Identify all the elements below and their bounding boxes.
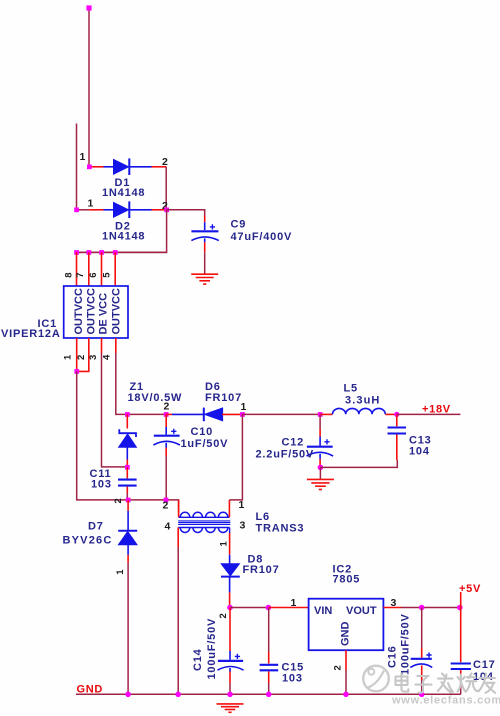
transformer L6 secondary — [165, 511, 305, 695]
char fa — [438, 674, 453, 693]
svg-text:OUTVCC: OUTVCC — [111, 288, 123, 335]
pin number 1 IC2 — [291, 597, 297, 609]
IC IC1 VIPER12A — [1, 286, 128, 340]
svg-text:C9: C9 — [231, 219, 247, 231]
node GND L6 pin4 — [175, 692, 181, 698]
node GND C14 — [227, 692, 233, 698]
svg-text:3: 3 — [88, 355, 99, 360]
svg-text:8: 8 — [64, 272, 75, 277]
svg-text:2: 2 — [76, 355, 87, 360]
diode D6 — [164, 381, 247, 421]
svg-text:TRANS3: TRANS3 — [256, 523, 305, 535]
wire D6 to C12 node — [242, 413, 320, 415]
pin number 5 — [102, 272, 113, 278]
svg-text:C10: C10 — [191, 426, 214, 438]
IC IC2 7805 — [309, 564, 384, 651]
wire pin8 stub — [76, 252, 78, 286]
capacitor C11 — [90, 467, 137, 500]
pin number 1 — [63, 354, 74, 360]
char you — [479, 674, 495, 693]
wire IC2 pin2 down — [345, 650, 347, 694]
node D7 top on y500 line — [126, 498, 131, 503]
pin number 2 D8 rotated — [218, 613, 229, 618]
wire pin4 stub — [115, 338, 117, 353]
capacitor C16 — [387, 608, 433, 695]
svg-text:L6: L6 — [256, 511, 270, 523]
svg-text:2: 2 — [333, 665, 344, 670]
net label GND — [77, 684, 104, 696]
node C12 top — [318, 412, 323, 417]
svg-text:VOUT: VOUT — [346, 605, 377, 617]
watermark url — [391, 695, 500, 707]
svg-text:100uF/50V: 100uF/50V — [206, 618, 218, 680]
svg-text:2: 2 — [164, 401, 170, 413]
node bus pin5 — [113, 250, 118, 255]
svg-text:D7: D7 — [88, 521, 104, 533]
char zi — [416, 676, 432, 693]
svg-text:GND: GND — [77, 684, 104, 696]
pin number 2 D7 rotated — [113, 498, 124, 503]
svg-text:1N4148: 1N4148 — [102, 231, 145, 243]
svg-text:GND: GND — [340, 622, 352, 647]
svg-text:OUTVCC: OUTVCC — [85, 288, 97, 335]
inductor L5 — [333, 383, 386, 415]
svg-text:1uF/50V: 1uF/50V — [181, 438, 229, 450]
svg-text:103: 103 — [282, 673, 303, 685]
node GND C15 — [266, 692, 272, 698]
svg-text:3: 3 — [391, 597, 397, 609]
svg-text:4: 4 — [102, 354, 113, 360]
wire pins1-2 down to y500 — [77, 371, 179, 512]
svg-text:2: 2 — [218, 613, 229, 618]
wire pin7 stub — [88, 252, 90, 286]
pin number 8 — [64, 272, 75, 277]
wire GND bus — [76, 693, 461, 695]
svg-text:C14: C14 — [192, 648, 204, 671]
wire pin5 stub — [114, 252, 116, 286]
node C13 top — [394, 412, 399, 417]
svg-text:1: 1 — [239, 499, 245, 511]
pin number 6 — [88, 272, 99, 277]
svg-text:6: 6 — [88, 272, 99, 277]
node Z1 bottom C11 top — [125, 465, 130, 470]
svg-text:3.3uH: 3.3uH — [345, 395, 380, 407]
svg-text:L5: L5 — [344, 383, 358, 395]
node D6 cathode — [240, 412, 245, 417]
node C16 top — [419, 605, 425, 611]
ground under C12 — [307, 479, 334, 489]
wire to +18V — [397, 413, 461, 415]
wire IC1 top bus — [77, 251, 167, 253]
node D1 anode — [87, 165, 92, 170]
svg-text:100uF/50V: 100uF/50V — [400, 613, 412, 675]
svg-text:1: 1 — [219, 541, 230, 547]
watermark logo circle — [363, 666, 389, 692]
capacitor C14 — [192, 608, 244, 695]
node GND D7 — [125, 692, 131, 698]
diode D2 — [77, 197, 169, 242]
wire pin6 stub — [101, 252, 103, 286]
diode D1 — [80, 151, 169, 199]
char shao — [458, 674, 479, 692]
transformer L6 core — [178, 521, 230, 525]
capacitor C10 — [153, 414, 228, 500]
net label +18V — [422, 404, 451, 416]
node Z1 top — [125, 412, 130, 417]
pin number 7 — [75, 272, 86, 277]
svg-text:1: 1 — [115, 569, 126, 575]
svg-text:104: 104 — [409, 446, 430, 458]
wire IC2 pin3 to +5V rail — [383, 607, 460, 609]
pin number 4 — [102, 354, 113, 360]
capacitor C9 — [191, 216, 292, 275]
ground under C9 — [191, 274, 218, 284]
capacitor C15 — [260, 608, 304, 695]
node GND C16 — [419, 692, 425, 698]
node +5V rail top — [457, 605, 463, 611]
svg-text:1N4148: 1N4148 — [102, 187, 145, 199]
svg-text:103: 103 — [91, 479, 112, 491]
node bus pin7 — [87, 250, 92, 255]
wire pin3 stub — [101, 338, 103, 353]
diode D7 — [63, 500, 138, 694]
wire D2 cathode to C9 — [167, 210, 205, 216]
svg-text:7: 7 — [75, 272, 86, 277]
wire pin2 stub — [77, 338, 89, 371]
svg-text:2: 2 — [163, 500, 169, 512]
svg-text:4: 4 — [165, 521, 171, 533]
wire pin4 down to Z1 node — [116, 353, 128, 414]
svg-text:BYV26C: BYV26C — [63, 535, 113, 547]
wire pin3 down to C11 node — [102, 353, 128, 467]
wire C15 node to IC2 pin1 — [268, 607, 308, 609]
node bus pin8 — [74, 250, 79, 255]
ground under C14 — [217, 704, 244, 712]
diode D8 — [221, 554, 280, 608]
svg-text:+18V: +18V — [422, 404, 451, 416]
node pins 1-2 join — [74, 369, 79, 374]
watermark text elecfans — [396, 674, 496, 693]
svg-text:FR107: FR107 — [205, 392, 242, 404]
svg-text:7805: 7805 — [333, 574, 361, 586]
node GND IC2 pin2 — [343, 692, 349, 698]
pin number 3 — [88, 355, 99, 360]
transformer L6 primary — [163, 414, 245, 517]
svg-text:VIN: VIN — [314, 605, 332, 617]
svg-text:47uF/400V: 47uF/400V — [231, 231, 293, 243]
svg-text:1: 1 — [80, 151, 86, 163]
pin number 3 IC2 — [391, 597, 397, 609]
wire L5 to C13 node — [385, 413, 397, 415]
svg-text:VIPER12A: VIPER12A — [1, 328, 61, 340]
pin number 2 — [76, 355, 87, 360]
net label +5V — [459, 583, 481, 608]
node C15 top — [266, 605, 272, 611]
node C10 top — [164, 412, 169, 417]
wire C12/C13 bottom link — [320, 460, 397, 467]
wire D8 node to C15 node — [230, 607, 268, 609]
wire junction down to IC bus — [77, 210, 167, 253]
capacitor C12 — [256, 414, 334, 467]
svg-text:2: 2 — [162, 156, 168, 168]
svg-text:+5V: +5V — [459, 583, 481, 595]
svg-text:FR107: FR107 — [243, 564, 280, 576]
char dian — [396, 674, 409, 692]
svg-text:DE VCC: DE VCC — [97, 293, 109, 335]
wire pin1 stub — [76, 338, 78, 371]
svg-text:C12: C12 — [282, 437, 305, 449]
capacitor C17 — [451, 608, 496, 695]
svg-text:www.elecfans.com: www.elecfans.com — [391, 695, 500, 707]
svg-text:1: 1 — [88, 197, 94, 209]
svg-text:1: 1 — [291, 597, 297, 609]
pin number 1 D7 rotated — [115, 569, 126, 575]
wire D1 cathode down — [165, 167, 167, 210]
wire input right vertical — [88, 8, 90, 167]
svg-text:3: 3 — [240, 520, 246, 532]
node D8 cathode — [227, 605, 233, 611]
wire C12 node to L5 — [320, 413, 332, 415]
node D2 anode — [74, 208, 79, 213]
pin number 2 IC2 rotated — [333, 665, 344, 670]
svg-text:C17: C17 — [473, 659, 496, 671]
svg-text:18V/0.5W: 18V/0.5W — [128, 392, 183, 404]
capacitor C13 — [388, 414, 432, 460]
node C12 bottom — [318, 465, 324, 471]
node C10 bottom on y500 line — [164, 498, 169, 503]
node D2 cathode junction — [164, 208, 169, 213]
wire C12 bottom to ground — [319, 467, 321, 479]
svg-text:1: 1 — [63, 354, 74, 360]
svg-text:2.2uF/50V: 2.2uF/50V — [256, 449, 315, 461]
zener Z1 — [119, 381, 183, 467]
node bus pin6 — [99, 250, 104, 255]
pin number 1 D8 rotated — [219, 541, 230, 547]
node top input — [86, 5, 91, 10]
wire C10 node red to D6 — [166, 413, 172, 415]
svg-text:5: 5 — [102, 272, 113, 278]
svg-text:C16: C16 — [387, 645, 399, 668]
wire main rail Z1 to C10 — [127, 413, 166, 415]
svg-text:2: 2 — [113, 498, 124, 503]
wire input left vertical — [76, 124, 78, 210]
svg-text:OUTVCC: OUTVCC — [73, 288, 85, 335]
